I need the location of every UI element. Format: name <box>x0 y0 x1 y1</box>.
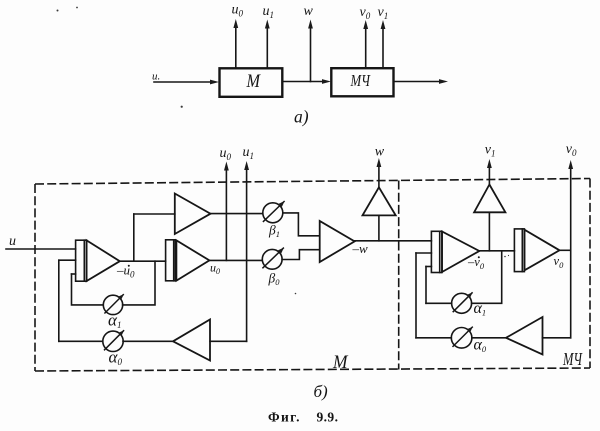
svg-text:u1: u1 <box>243 145 255 161</box>
svg-text:и.: и. <box>152 71 160 83</box>
svg-text:β1: β1 <box>268 223 280 240</box>
svg-text:б): б) <box>314 382 329 401</box>
svg-text:β0: β0 <box>268 271 281 288</box>
svg-text:α0: α0 <box>474 337 487 355</box>
svg-text:М: М <box>246 71 261 92</box>
svg-text:v0: v0 <box>554 254 565 270</box>
svg-text:МЧ: МЧ <box>562 349 583 369</box>
svg-text:u0: u0 <box>210 261 220 277</box>
svg-text:v0: v0 <box>360 5 371 21</box>
svg-text:u1: u1 <box>263 4 275 20</box>
svg-text:w: w <box>304 4 314 19</box>
svg-text:α0: α0 <box>109 348 123 368</box>
svg-text:v1: v1 <box>485 143 496 159</box>
svg-text:а): а) <box>294 107 309 127</box>
svg-text:МЧ: МЧ <box>350 71 371 90</box>
svg-text:9.9.: 9.9. <box>317 409 339 424</box>
svg-text:α1: α1 <box>108 311 121 331</box>
svg-text:v0: v0 <box>566 142 577 158</box>
svg-text:u0: u0 <box>220 146 232 162</box>
svg-text:–w: –w <box>352 241 369 256</box>
svg-text:–u0: –u0 <box>116 263 135 280</box>
svg-text:–v0: –v0 <box>467 255 485 271</box>
svg-text:и: и <box>9 234 16 249</box>
svg-text:v1: v1 <box>378 5 389 21</box>
svg-text:М: М <box>332 352 348 373</box>
svg-text:Фиг.: Фиг. <box>268 409 301 424</box>
svg-text:w: w <box>375 145 385 160</box>
svg-text:u0: u0 <box>232 3 244 19</box>
